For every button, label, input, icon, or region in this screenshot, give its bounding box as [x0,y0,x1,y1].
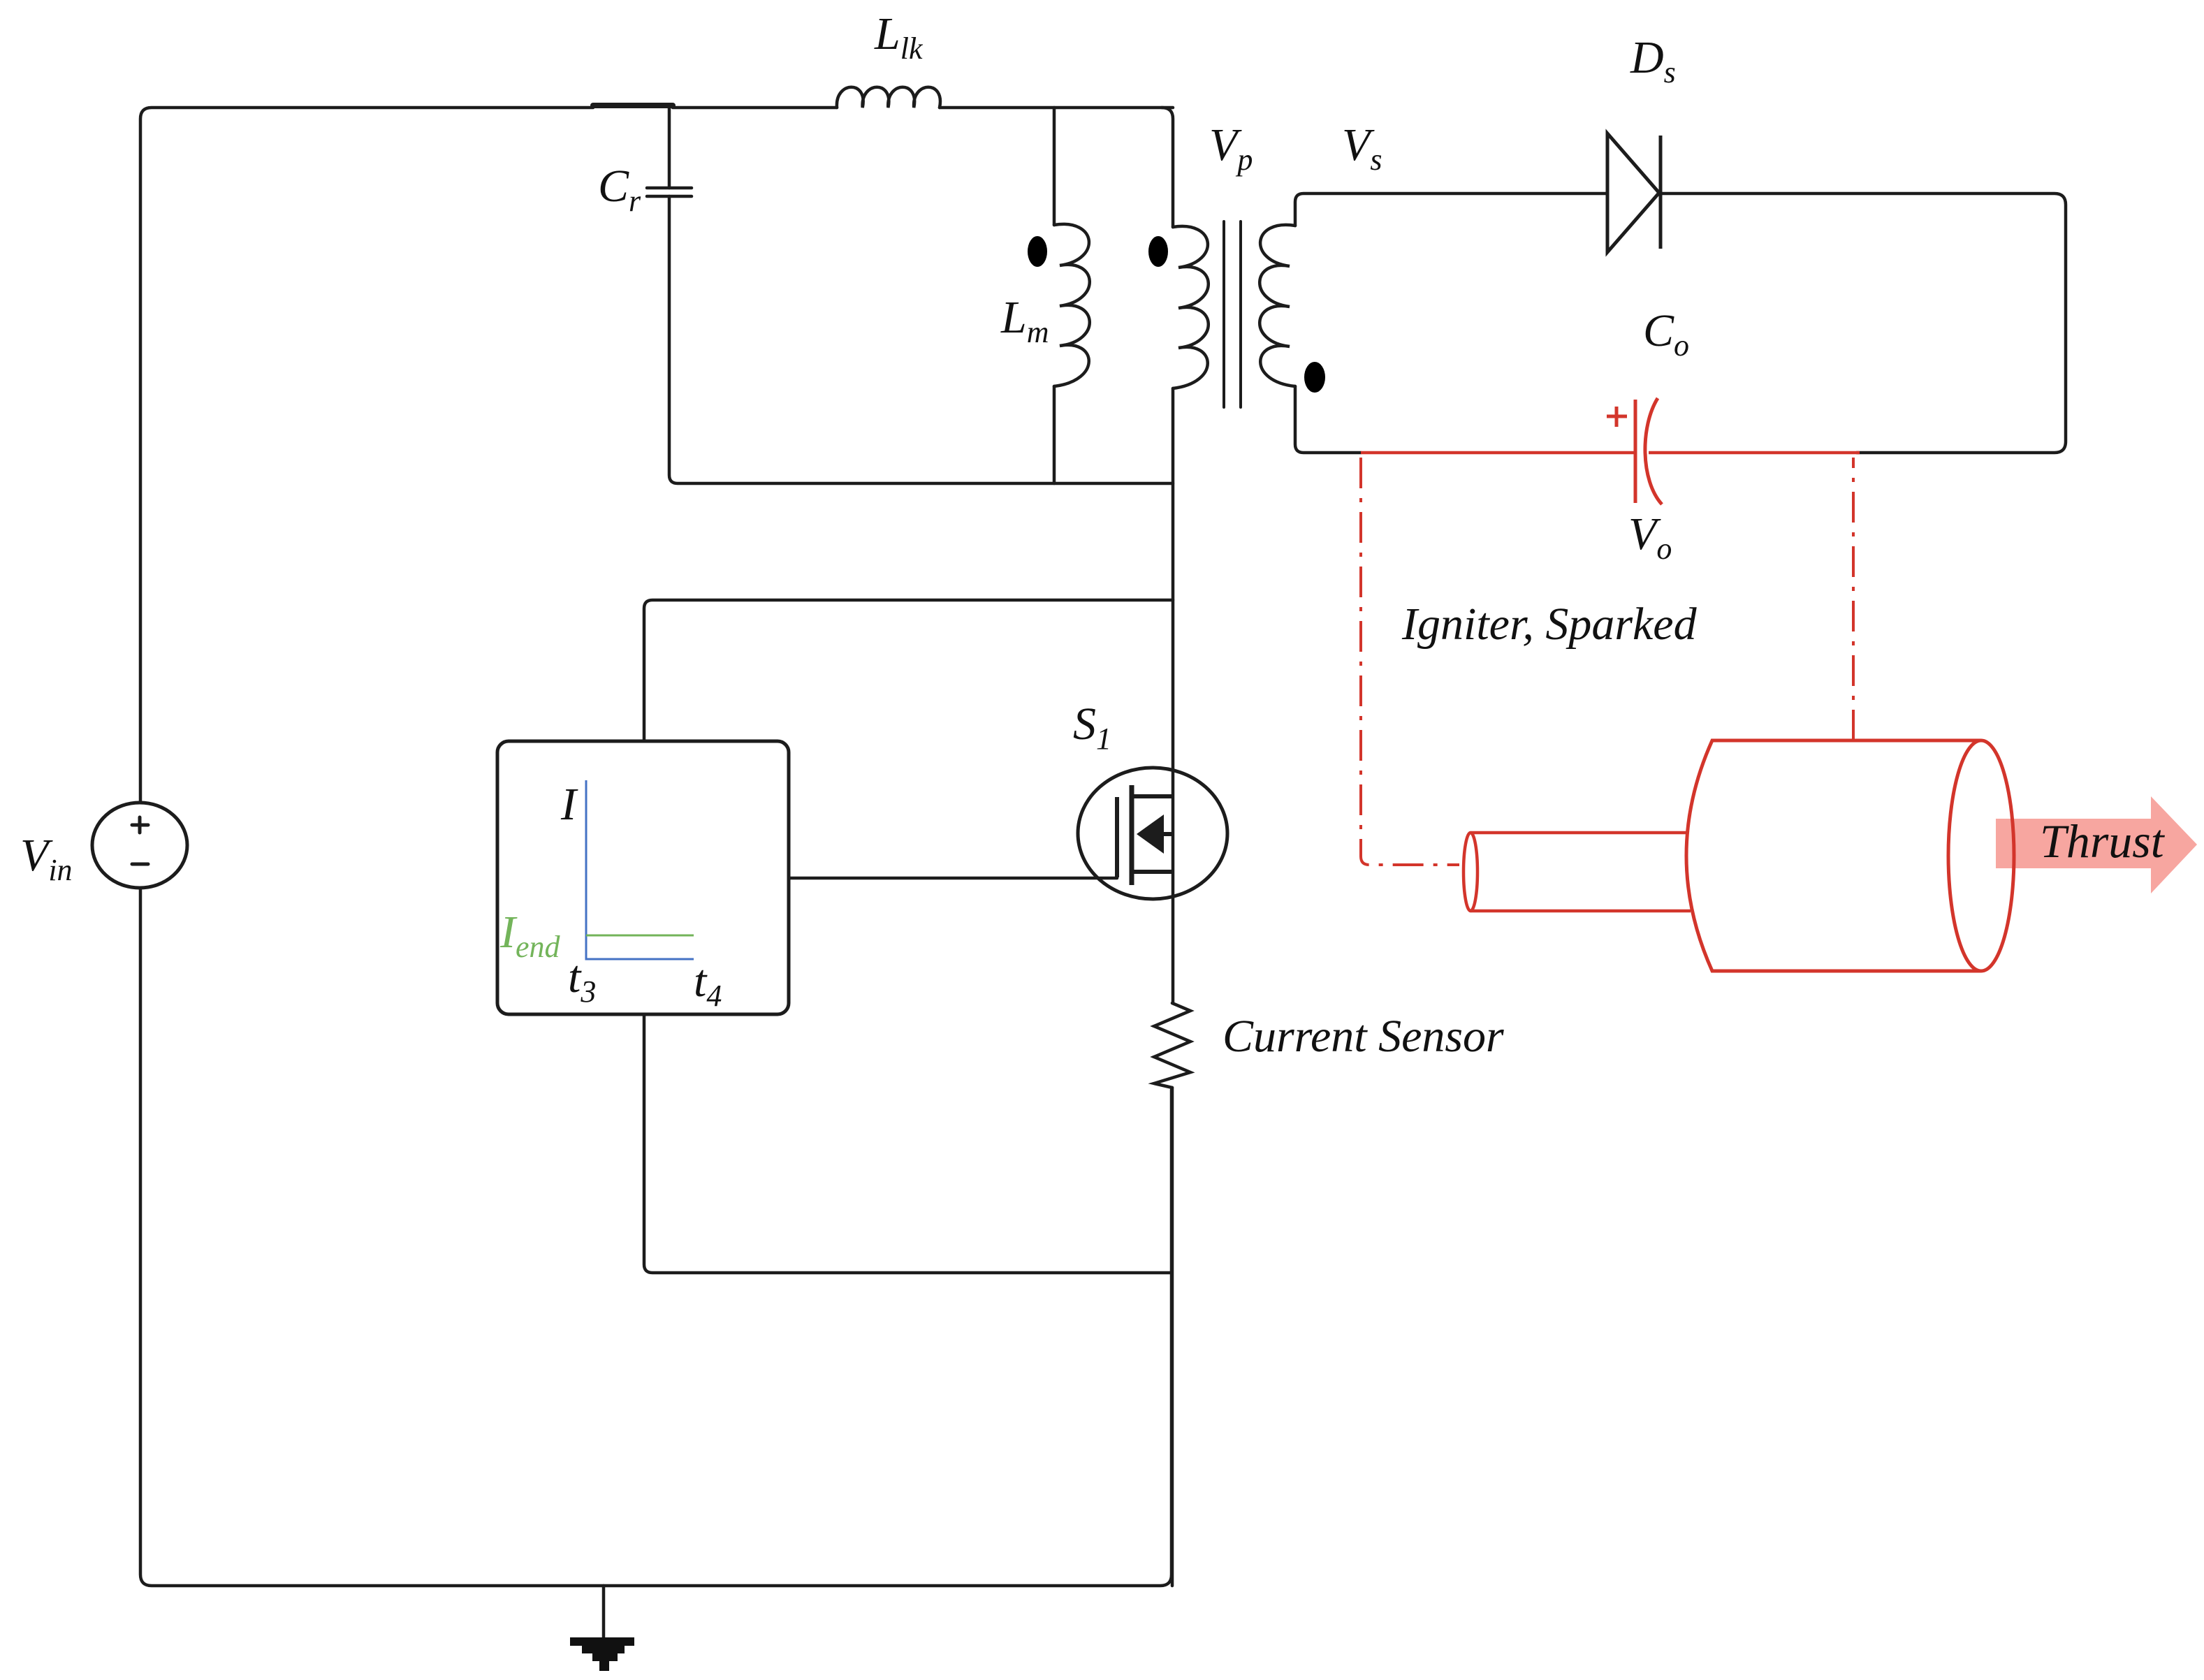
svg-text:Igniter, Sparked: Igniter, Sparked [1401,599,1698,650]
svg-text:I: I [560,779,578,830]
svg-text:Thrust: Thrust [2040,815,2166,868]
svg-text:Current Sensor: Current Sensor [1223,1011,1504,1062]
